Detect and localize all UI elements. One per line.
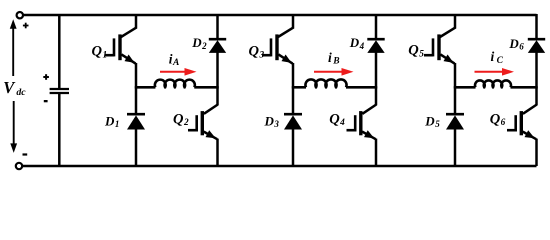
transistor Q2 body bar (201, 111, 204, 135)
transistor Q3 gate bar (270, 38, 273, 56)
diode D3 cathode wire (292, 86, 295, 114)
terminal node - (bottom left) (16, 163, 22, 169)
current arrow iA (160, 71, 187, 73)
transistor Q1 collector wire (135, 14, 138, 29)
diode D4 anode wire (375, 53, 378, 89)
capacitor C upper wire (58, 15, 61, 88)
transistor Q2 emitter arrow (206, 130, 216, 138)
transistor Q5 collector wire (454, 14, 457, 29)
transistor Q6 collector diagonal (523, 105, 537, 114)
wire top DC bus rail (20, 14, 537, 17)
transistor Q2 emitter diagonal (204, 132, 218, 140)
transistor Q3 collector wire (292, 14, 295, 29)
wire winding right phase A (194, 86, 218, 89)
transistor Q6 emitter arrow (525, 130, 535, 138)
wire winding left phase C (454, 86, 476, 89)
transistor Q1 collector diagonal (121, 28, 136, 37)
transistor Q4 gate lead (347, 129, 356, 132)
phase winding inductor LB (305, 79, 346, 87)
transistor Q3 body bar (275, 34, 278, 60)
plus sign at top terminal (23, 25, 29, 27)
wire winding right phase B (346, 86, 377, 89)
diode D2 anode wire (216, 53, 219, 89)
diode D1 triangle (127, 115, 145, 129)
diode D3 cathode bar (284, 113, 302, 116)
transistor Q5 emitter arrow (444, 55, 454, 63)
diode D5 cathode wire (454, 86, 457, 114)
transistor Q5 emitter diagonal (440, 54, 454, 63)
diode D6 anode wire (535, 53, 538, 89)
transistor Q6 gate lead (507, 129, 516, 132)
transistor Q6 body bar (520, 111, 523, 135)
diode D5 cathode bar (446, 113, 464, 116)
minus sign at bottom terminal (23, 153, 28, 155)
diode D2 cathode bar (209, 38, 226, 41)
transistor Q5 gate bar (432, 38, 435, 56)
current arrow iC (475, 71, 505, 73)
transistor Q3 emitter arrow (282, 55, 292, 63)
transistor Q1 body bar (118, 34, 121, 60)
wire left leg mid (emitter of Q5 to node) (454, 63, 457, 89)
capacitor plus sign (43, 76, 49, 78)
diode D6 triangle (528, 40, 545, 53)
Vdc down arrow (13, 101, 15, 145)
transistor Q4 collector wire (375, 86, 378, 105)
transistor Q1 emitter diagonal (121, 54, 135, 63)
diode D4 triangle (367, 40, 384, 53)
diode D2 triangle (209, 40, 226, 53)
diode D4 cathode wire (375, 14, 378, 39)
wire winding left phase B (292, 86, 306, 89)
diode D1 cathode bar (127, 113, 145, 116)
transistor Q5 body bar (437, 34, 440, 60)
transistor Q6 collector wire (535, 86, 538, 105)
diode D1 anode wire (135, 129, 138, 166)
capacitor C bottom plate (50, 92, 69, 94)
diode D1 cathode wire (135, 86, 138, 114)
wire winding right phase C (511, 86, 538, 89)
capacitor minus sign (44, 100, 48, 102)
transistor Q2 gate lead (188, 129, 197, 132)
diode D5 triangle (446, 115, 464, 129)
wire winding left phase A (135, 86, 155, 89)
wire left leg mid (emitter of Q1 to node) (135, 63, 138, 89)
transistor Q5 gate lead (424, 54, 433, 57)
current arrow iB (314, 71, 344, 73)
Vdc up arrow (12, 28, 14, 77)
transistor Q2 gate bar (195, 115, 198, 131)
transistor Q2 emitter wire (216, 139, 219, 166)
terminal node + (top left) (17, 12, 23, 18)
capacitor C lower wire (58, 94, 61, 166)
transistor Q3 emitter diagonal (278, 54, 292, 63)
diode D5 anode wire (454, 129, 457, 166)
transistor Q3 gate lead (262, 54, 271, 57)
diode D3 anode wire (292, 129, 295, 166)
diode D6 cathode wire (535, 14, 538, 39)
transistor Q2 collector diagonal (204, 105, 218, 114)
phase winding inductor LC (475, 80, 511, 87)
diode D4 cathode bar (367, 38, 384, 41)
transistor Q4 emitter diagonal (362, 132, 376, 140)
wire left leg mid (emitter of Q3 to node) (292, 63, 295, 89)
transistor Q6 emitter wire (535, 139, 538, 166)
transistor Q3 collector diagonal (278, 28, 293, 37)
transistor Q1 gate bar (113, 38, 116, 56)
capacitor C top plate (50, 88, 69, 90)
diode D2 cathode wire (216, 14, 219, 39)
transistor Q6 gate bar (514, 115, 517, 131)
transistor Q1 emitter arrow (125, 55, 135, 63)
transistor Q4 emitter wire (375, 139, 378, 166)
transistor Q6 emitter diagonal (523, 132, 537, 140)
wire bottom DC bus rail (20, 165, 537, 168)
transistor Q4 collector diagonal (362, 105, 376, 114)
diode D6 cathode bar (528, 38, 545, 41)
diode D3 triangle (284, 115, 302, 129)
transistor Q4 emitter arrow (364, 130, 374, 138)
transistor Q4 body bar (359, 111, 362, 135)
transistor Q5 collector diagonal (440, 28, 455, 37)
phase winding inductor LA (155, 80, 195, 88)
transistor Q4 gate bar (354, 115, 357, 131)
transistor Q1 gate lead (105, 54, 114, 57)
transistor Q2 collector wire (216, 86, 219, 105)
